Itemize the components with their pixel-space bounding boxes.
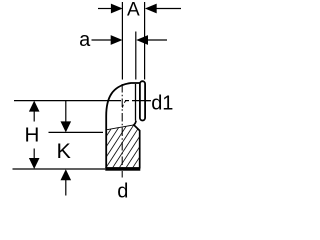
K dimension down arrowhead xyxy=(61,121,72,132)
dimension A right arrowhead xyxy=(145,4,157,14)
dimension A left arrowhead xyxy=(111,4,123,14)
vertical centerline (dash-dot) xyxy=(121,84,123,178)
K dimension upper stem xyxy=(65,101,67,122)
body right notch, chamfer and right edge xyxy=(134,121,140,169)
dimension A left tail xyxy=(98,8,112,10)
inner bore hidden arc (dashed) xyxy=(122,100,126,109)
dimension a right tail xyxy=(147,39,167,41)
body outer arc and left edge xyxy=(106,83,139,170)
K top extension line xyxy=(49,131,104,133)
bottom extension line xyxy=(13,168,106,170)
bottom rim (thick) xyxy=(105,167,140,171)
H dimension upper stem xyxy=(33,111,35,122)
dimension A right tail xyxy=(156,8,182,10)
H dimension down arrowhead xyxy=(29,158,40,169)
extension line collar OD xyxy=(144,2,146,80)
collar (socket flange) xyxy=(140,81,145,120)
horizontal axis of side outlet / H extension line xyxy=(14,100,121,102)
dimension a left arrowhead xyxy=(111,35,123,45)
svg-text:d: d xyxy=(117,180,128,200)
svg-text:A: A xyxy=(127,0,140,20)
H dimension up arrowhead xyxy=(29,101,40,112)
K dimension up arrowhead xyxy=(61,169,72,180)
extension line pipe OD xyxy=(135,32,137,80)
dimension a right arrowhead xyxy=(136,35,148,45)
svg-text:H: H xyxy=(24,123,39,146)
svg-text:d1: d1 xyxy=(151,92,173,114)
hatch top boundary line xyxy=(106,125,134,130)
pipe outer wall beside collar xyxy=(135,84,137,121)
extension line axis (vertical, top) xyxy=(121,2,123,80)
H dimension lower stem xyxy=(33,149,35,159)
svg-text:K: K xyxy=(57,139,72,163)
svg-text:a: a xyxy=(79,29,91,51)
dimension a left tail xyxy=(92,39,113,41)
K dimension lower stem xyxy=(65,180,67,196)
d1 leader xyxy=(146,100,151,102)
